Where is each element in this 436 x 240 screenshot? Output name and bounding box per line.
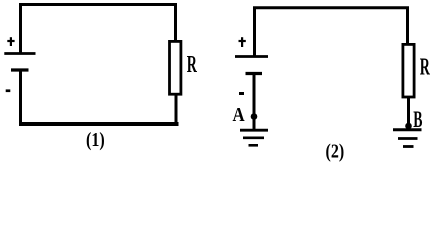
svg-text:A: A xyxy=(233,104,246,126)
svg-text:(1): (1) xyxy=(86,128,105,151)
svg-text:B: B xyxy=(413,108,422,133)
svg-text:R: R xyxy=(420,54,431,81)
svg-text:R: R xyxy=(187,51,198,78)
svg-text:(2): (2) xyxy=(326,140,345,163)
